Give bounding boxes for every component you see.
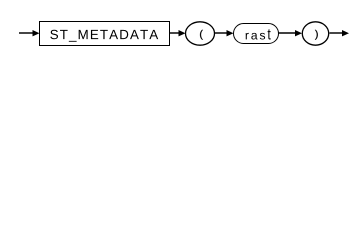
label ) <box>315 30 318 40</box>
oval ) <box>302 22 328 45</box>
arrowhead end <box>342 30 349 36</box>
label ( <box>200 30 203 40</box>
arrowhead into rast oval <box>227 30 234 36</box>
wire <box>279 32 297 34</box>
wire <box>215 32 228 34</box>
arrowhead into ST_METADATA box <box>33 30 40 36</box>
label ST_METADATA <box>50 30 158 42</box>
label rast <box>246 29 271 39</box>
wire exit <box>330 32 344 34</box>
arrowhead into ( oval <box>179 30 186 36</box>
box ST_METADATA <box>40 22 170 46</box>
wire <box>170 32 180 34</box>
background <box>0 0 352 58</box>
stadium rast <box>234 24 279 44</box>
wire entry <box>19 32 34 34</box>
oval ( <box>186 22 215 45</box>
arrowhead into ) oval <box>295 30 302 36</box>
